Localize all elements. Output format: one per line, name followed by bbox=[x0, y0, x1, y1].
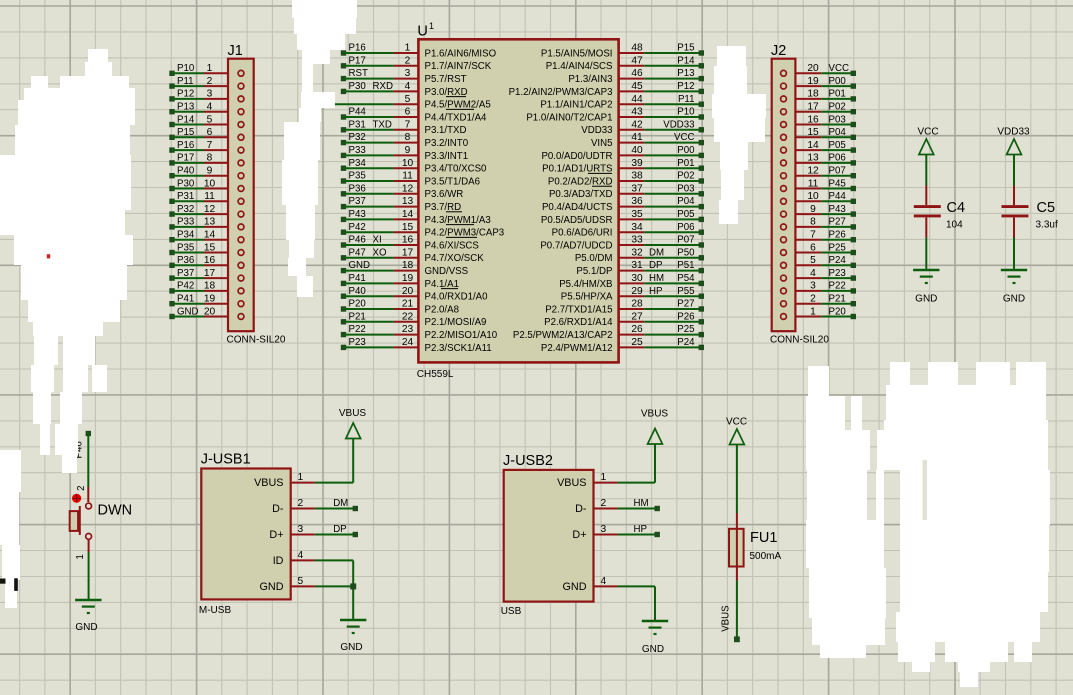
svg-text:P33: P33 bbox=[177, 217, 194, 228]
U1 pin 10 internal label bbox=[425, 164, 488, 175]
svg-text:P40: P40 bbox=[177, 166, 195, 177]
svg-text:P2.2/MISO1/A10: P2.2/MISO1/A10 bbox=[425, 330, 498, 341]
svg-text:P06: P06 bbox=[829, 153, 846, 164]
svg-text:10: 10 bbox=[807, 191, 819, 202]
J1 pin 13 wire (P33) bbox=[169, 217, 244, 230]
U1 pin 34 right wire (P06) bbox=[619, 222, 704, 235]
U1 pin 36 internal label bbox=[542, 202, 613, 213]
svg-text:16: 16 bbox=[402, 235, 414, 246]
U1 pin 30 internal label bbox=[559, 279, 612, 290]
svg-text:P04: P04 bbox=[677, 196, 695, 207]
svg-text:P11: P11 bbox=[177, 76, 194, 87]
J1 pin 11 wire (P31) bbox=[169, 191, 244, 204]
svg-text:FU1: FU1 bbox=[750, 530, 777, 546]
svg-text:15: 15 bbox=[204, 242, 216, 253]
svg-text:DP: DP bbox=[333, 524, 346, 535]
svg-text:P47: P47 bbox=[349, 247, 366, 258]
U1 pin 47 right wire (P14) bbox=[619, 55, 704, 68]
svg-text:4: 4 bbox=[207, 102, 213, 113]
svg-text:3: 3 bbox=[601, 524, 607, 535]
svg-text:1: 1 bbox=[429, 21, 434, 31]
J2 pin 17 wire (P02) bbox=[781, 102, 856, 115]
svg-text:D+: D+ bbox=[269, 529, 283, 541]
svg-text:15: 15 bbox=[402, 222, 414, 233]
svg-text:9: 9 bbox=[207, 166, 213, 177]
svg-text:19: 19 bbox=[807, 76, 819, 87]
J-USB1 pin 4 (ID) bbox=[273, 550, 315, 567]
U1 pin 42 internal label bbox=[581, 125, 612, 136]
svg-text:P32: P32 bbox=[349, 132, 366, 143]
J2 pin 15 wire (P04) bbox=[781, 127, 856, 140]
wire DWN pin 1 to ground bbox=[88, 552, 90, 599]
svg-text:P11: P11 bbox=[678, 94, 695, 105]
svg-text:P25: P25 bbox=[829, 242, 846, 253]
svg-text:P42: P42 bbox=[349, 222, 366, 233]
svg-text:GND: GND bbox=[177, 306, 199, 317]
U1 pin 13 internal label bbox=[425, 202, 463, 213]
svg-text:P02: P02 bbox=[829, 102, 846, 113]
svg-text:11: 11 bbox=[808, 178, 819, 189]
svg-text:27: 27 bbox=[631, 311, 643, 322]
svg-text:P12: P12 bbox=[677, 81, 694, 92]
svg-text:18: 18 bbox=[204, 281, 216, 292]
svg-text:P17: P17 bbox=[177, 153, 194, 164]
svg-text:P5.0/DM: P5.0/DM bbox=[575, 253, 613, 264]
J2 pin 11 wire (P45) bbox=[781, 178, 856, 191]
J2 pin 9 wire (P43) bbox=[781, 204, 856, 217]
U1 pin 7 internal label bbox=[425, 125, 467, 136]
white-out scribble middle streak (blob D) bbox=[302, 64, 313, 92]
svg-text:P31: P31 bbox=[349, 119, 366, 130]
U1 pin 25 internal label bbox=[541, 343, 613, 354]
J1 pin 10 wire (P30) bbox=[169, 178, 244, 191]
svg-text:3: 3 bbox=[810, 281, 816, 292]
U1 pin 37 internal label bbox=[549, 189, 613, 200]
connector J-USB2 (USB) body bbox=[501, 453, 594, 617]
U1 pin 42 right wire (VDD33) bbox=[619, 119, 704, 132]
J2 pin 8 wire (P27) bbox=[781, 217, 856, 230]
svg-text:20: 20 bbox=[204, 306, 216, 317]
svg-text:17: 17 bbox=[204, 268, 216, 279]
J1 pin 3 wire (P12) bbox=[169, 89, 244, 102]
J2 pin 6 wire (P25) bbox=[781, 242, 856, 255]
svg-text:5: 5 bbox=[405, 94, 411, 105]
svg-text:29: 29 bbox=[631, 286, 643, 297]
svg-text:16: 16 bbox=[204, 255, 216, 266]
J1 pin 8 wire (P17) bbox=[169, 153, 244, 166]
power flag VDD33 (above C5) bbox=[997, 127, 1030, 186]
ground symbol below J-USB2 bbox=[642, 621, 668, 655]
J1 pin 14 wire (P34) bbox=[169, 230, 244, 243]
svg-text:P12: P12 bbox=[177, 89, 194, 100]
svg-text:6: 6 bbox=[207, 127, 213, 138]
svg-text:P50: P50 bbox=[677, 247, 695, 258]
svg-text:30: 30 bbox=[631, 273, 643, 284]
svg-text:23: 23 bbox=[402, 324, 414, 335]
J-USB2 pin 1 (VBUS) bbox=[557, 472, 617, 489]
U1 pin 3 left wire (RST) bbox=[341, 68, 419, 81]
svg-text:19: 19 bbox=[204, 294, 216, 305]
power flag VBUS (above J-USB2) bbox=[641, 409, 669, 445]
U1 pin 40 right wire (P00) bbox=[619, 145, 704, 158]
wire + terminal DM bbox=[315, 498, 358, 511]
J1 pin 6 wire (P15) bbox=[169, 127, 244, 140]
J1 pin 17 wire (P37) bbox=[169, 268, 244, 281]
U1 pin 8 internal label bbox=[425, 138, 469, 149]
J2 pin 14 wire (P05) bbox=[781, 140, 856, 153]
U1 pin 24 left wire (P23) bbox=[341, 337, 419, 350]
svg-text:P46: P46 bbox=[349, 235, 366, 246]
U1 pin 27 right wire (P26) bbox=[619, 311, 704, 324]
svg-text:D-: D- bbox=[272, 503, 284, 515]
power flag VCC (above FU1) bbox=[726, 417, 747, 514]
svg-text:DWN: DWN bbox=[98, 503, 133, 519]
J2 pin 12 wire (P07) bbox=[781, 166, 856, 179]
J2 pin 5 wire (P24) bbox=[781, 255, 856, 268]
IC U1 CH559L body bbox=[417, 21, 619, 380]
U1 pin 19 internal label bbox=[425, 279, 459, 290]
svg-text:P35: P35 bbox=[177, 242, 194, 253]
svg-text:GND: GND bbox=[915, 294, 937, 305]
svg-text:P16: P16 bbox=[177, 140, 194, 151]
svg-text:P22: P22 bbox=[349, 324, 366, 335]
U1 pin 46 right wire (P13) bbox=[619, 68, 704, 81]
svg-text:P36: P36 bbox=[177, 255, 194, 266]
svg-text:42: 42 bbox=[631, 119, 643, 130]
svg-text:8: 8 bbox=[405, 132, 411, 143]
J1 pin 18 wire (P42) bbox=[169, 281, 244, 294]
svg-text:18: 18 bbox=[807, 89, 819, 100]
U1 pin 9 internal label bbox=[425, 151, 469, 162]
svg-text:P1.6/AIN6/MISO: P1.6/AIN6/MISO bbox=[425, 48, 497, 59]
svg-text:P13: P13 bbox=[677, 68, 694, 79]
svg-text:P45: P45 bbox=[829, 178, 846, 189]
svg-text:CH559L: CH559L bbox=[417, 369, 454, 380]
svg-text:GND: GND bbox=[642, 644, 664, 655]
svg-text:CONN-SIL20: CONN-SIL20 bbox=[770, 335, 829, 346]
svg-text:33: 33 bbox=[631, 235, 643, 246]
svg-text:36: 36 bbox=[631, 196, 643, 207]
ground symbol below J-USB1 bbox=[340, 620, 366, 653]
svg-text:34: 34 bbox=[631, 222, 643, 233]
U1 pin 4 left wire (P30) bbox=[341, 81, 419, 94]
svg-text:GND: GND bbox=[75, 622, 97, 633]
wire J-USB2 pin4 to ground bbox=[618, 586, 656, 620]
svg-text:GND: GND bbox=[349, 260, 371, 271]
svg-text:19: 19 bbox=[402, 273, 414, 284]
U1 pin 3 internal label bbox=[425, 74, 467, 85]
U1 pin 11 left wire (P35) bbox=[341, 171, 419, 184]
white-out scribble bottom-right (left stroke cluster) bbox=[808, 366, 829, 396]
U1 pin 17 internal label bbox=[425, 253, 485, 264]
J1 pin 20 wire (GND) bbox=[169, 306, 244, 319]
U1 pin 33 right wire (P07) bbox=[619, 235, 704, 248]
U1 pin 29 internal label bbox=[561, 292, 613, 303]
power flag VCC (above C4) bbox=[917, 127, 938, 186]
svg-text:10: 10 bbox=[402, 158, 414, 169]
svg-text:17: 17 bbox=[402, 247, 414, 258]
svg-text:P5.4/HM/XB: P5.4/HM/XB bbox=[559, 279, 612, 290]
svg-text:44: 44 bbox=[631, 94, 643, 105]
U1 pin 20 internal label bbox=[425, 292, 489, 303]
svg-text:P0.0/AD0/UDTR: P0.0/AD0/UDTR bbox=[541, 151, 612, 162]
svg-text:P2.5/PWM2/A13/CAP2: P2.5/PWM2/A13/CAP2 bbox=[513, 330, 613, 341]
svg-text:1: 1 bbox=[405, 43, 411, 54]
svg-text:P07: P07 bbox=[677, 235, 694, 246]
U1 pin 29 right wire (P55) bbox=[619, 286, 704, 299]
svg-text:P15: P15 bbox=[177, 127, 194, 138]
J-USB1 pin 2 (D-) bbox=[272, 498, 315, 515]
svg-text:P30: P30 bbox=[177, 178, 195, 189]
svg-text:35: 35 bbox=[631, 209, 643, 220]
svg-text:P37: P37 bbox=[349, 196, 366, 207]
svg-text:HP: HP bbox=[634, 524, 647, 535]
svg-text:P21: P21 bbox=[349, 311, 366, 322]
svg-text:P27: P27 bbox=[829, 217, 846, 228]
svg-text:TXD: TXD bbox=[373, 119, 392, 130]
svg-text:VCC: VCC bbox=[829, 63, 849, 74]
svg-text:P17: P17 bbox=[349, 55, 366, 66]
U1 pin 24 internal label bbox=[425, 343, 492, 354]
U1 pin 23 internal label bbox=[425, 330, 498, 341]
svg-text:P13: P13 bbox=[177, 102, 194, 113]
svg-text:VDD33: VDD33 bbox=[997, 127, 1030, 138]
J1 pin 5 wire (P14) bbox=[169, 114, 244, 127]
U1 pin 2 internal label bbox=[425, 61, 492, 72]
white-out scribble left edge streak bbox=[0, 450, 21, 492]
connector J1 CONN-SIL20 bbox=[227, 43, 286, 346]
svg-text:P5.1/DP: P5.1/DP bbox=[576, 266, 612, 277]
U1 pin 36 right wire (P04) bbox=[619, 196, 704, 209]
svg-text:2: 2 bbox=[810, 294, 816, 305]
U1 pin 33 internal label bbox=[540, 240, 612, 251]
svg-text:P02: P02 bbox=[677, 171, 694, 182]
svg-text:P2.0/A8: P2.0/A8 bbox=[425, 304, 459, 315]
U1 pin 47 internal label bbox=[546, 61, 613, 72]
U1 pin 30 right wire (P54) bbox=[619, 273, 704, 286]
svg-text:P54: P54 bbox=[677, 273, 695, 284]
J2 pin 16 wire (P03) bbox=[781, 114, 856, 127]
svg-text:1: 1 bbox=[75, 554, 86, 559]
U1 pin 7 left wire (P31) bbox=[341, 119, 419, 132]
U1 pin 48 right wire (P15) bbox=[619, 43, 704, 56]
J-USB2 pin 4 (GND) bbox=[563, 576, 618, 593]
svg-text:P3.6/WR: P3.6/WR bbox=[425, 189, 464, 200]
svg-text:5: 5 bbox=[207, 114, 213, 125]
U1 pin 44 internal label bbox=[540, 100, 612, 111]
J2 pin 18 wire (P01) bbox=[781, 89, 856, 102]
svg-text:5: 5 bbox=[298, 576, 304, 587]
svg-text:9: 9 bbox=[810, 204, 816, 215]
svg-text:25: 25 bbox=[631, 337, 643, 348]
svg-text:2: 2 bbox=[76, 486, 87, 491]
J2 pin 19 wire (P00) bbox=[781, 76, 856, 89]
svg-text:P36: P36 bbox=[349, 183, 366, 194]
J2 pin 20 wire (VCC) bbox=[781, 63, 856, 76]
U1 pin 5 internal label bbox=[425, 100, 491, 111]
svg-text:17: 17 bbox=[807, 102, 819, 113]
svg-text:GND: GND bbox=[260, 581, 284, 593]
svg-text:P34: P34 bbox=[349, 158, 367, 169]
U1 pin 13 left wire (P37) bbox=[341, 196, 419, 209]
svg-text:DM: DM bbox=[333, 498, 348, 509]
svg-text:VBUS: VBUS bbox=[641, 409, 669, 420]
svg-text:P3.5/T1/DA6: P3.5/T1/DA6 bbox=[425, 176, 480, 187]
U1 pin 32 internal label bbox=[575, 253, 613, 264]
svg-text:3.3uf: 3.3uf bbox=[1036, 220, 1058, 231]
U1 pin 18 left wire (GND) bbox=[341, 260, 419, 273]
U1 pin 34 internal label bbox=[552, 228, 613, 239]
svg-text:P15: P15 bbox=[677, 43, 694, 54]
U1 pin 31 right wire (P51) bbox=[619, 260, 704, 273]
svg-text:P2.3/SCK1/A11: P2.3/SCK1/A11 bbox=[425, 343, 492, 354]
svg-text:41: 41 bbox=[631, 132, 643, 143]
svg-text:24: 24 bbox=[402, 337, 414, 348]
svg-text:P2.1/MOSI/A9: P2.1/MOSI/A9 bbox=[425, 317, 487, 328]
svg-text:VBUS: VBUS bbox=[557, 477, 586, 489]
U1 pin 19 left wire (P41) bbox=[341, 273, 419, 286]
svg-text:P34: P34 bbox=[177, 230, 195, 241]
U1 pin 1 left wire (P16) bbox=[341, 43, 419, 56]
J-USB2 pin 2 (D-) bbox=[575, 498, 617, 515]
svg-text:J-USB2: J-USB2 bbox=[503, 453, 553, 469]
U1 pin 31 internal label bbox=[576, 266, 612, 277]
U1 pin 45 right wire (P12) bbox=[619, 81, 704, 94]
svg-text:9: 9 bbox=[405, 145, 411, 156]
svg-text:HM: HM bbox=[634, 498, 649, 509]
J2 pin 13 wire (P06) bbox=[781, 153, 856, 166]
svg-text:P44: P44 bbox=[349, 107, 367, 118]
svg-text:P00: P00 bbox=[677, 145, 695, 156]
svg-text:14: 14 bbox=[402, 209, 414, 220]
svg-text:15: 15 bbox=[807, 127, 819, 138]
svg-text:7: 7 bbox=[405, 119, 411, 130]
svg-text:46: 46 bbox=[631, 68, 643, 79]
svg-text:C4: C4 bbox=[947, 200, 966, 216]
U1 pin 20 left wire (P40) bbox=[341, 286, 419, 299]
svg-text:3: 3 bbox=[298, 524, 304, 535]
U1 pin 44 right wire (P11) bbox=[619, 94, 704, 107]
svg-text:XI: XI bbox=[373, 235, 382, 246]
svg-text:1: 1 bbox=[810, 306, 816, 317]
svg-text:P06: P06 bbox=[677, 222, 694, 233]
svg-text:P4.6/XI/SCS: P4.6/XI/SCS bbox=[425, 240, 480, 251]
svg-text:P14: P14 bbox=[177, 114, 195, 125]
U1 pin 25 right wire (P24) bbox=[619, 337, 704, 350]
svg-text:P0.5/AD5/UDSR: P0.5/AD5/UDSR bbox=[541, 215, 613, 226]
U1 pin 43 internal label bbox=[526, 112, 612, 123]
svg-text:13: 13 bbox=[807, 153, 819, 164]
svg-text:D-: D- bbox=[575, 503, 587, 515]
svg-text:P32: P32 bbox=[177, 204, 194, 215]
svg-text:P2.6/RXD1/A14: P2.6/RXD1/A14 bbox=[544, 317, 613, 328]
svg-text:P0.3/AD3/TXD: P0.3/AD3/TXD bbox=[549, 189, 613, 200]
erased component fragment (left edge) bbox=[0, 254, 50, 591]
connector J2 CONN-SIL20 bbox=[770, 43, 829, 346]
white-out scribble right of U1 (blob E) bbox=[717, 46, 746, 66]
svg-text:P30: P30 bbox=[349, 81, 367, 92]
svg-text:U: U bbox=[417, 24, 427, 40]
svg-text:P3.3/INT1: P3.3/INT1 bbox=[425, 151, 469, 162]
svg-text:P04: P04 bbox=[829, 127, 847, 138]
svg-text:GND: GND bbox=[340, 642, 362, 653]
svg-text:47: 47 bbox=[631, 55, 643, 66]
svg-text:6: 6 bbox=[810, 242, 816, 253]
svg-text:104: 104 bbox=[946, 220, 963, 231]
svg-text:P35: P35 bbox=[349, 171, 366, 182]
svg-text:P03: P03 bbox=[829, 114, 846, 125]
svg-text:VDD33: VDD33 bbox=[581, 125, 612, 136]
U1 pin 2 left wire (P17) bbox=[341, 55, 419, 68]
U1 pin 11 internal label bbox=[425, 176, 480, 187]
svg-text:XO: XO bbox=[373, 247, 387, 258]
svg-text:18: 18 bbox=[402, 260, 414, 271]
svg-text:P26: P26 bbox=[829, 230, 846, 241]
U1 pin 28 internal label bbox=[545, 304, 612, 315]
fuse FU1 500mA bbox=[729, 513, 782, 581]
svg-text:M-USB: M-USB bbox=[199, 605, 232, 616]
svg-text:VBUS: VBUS bbox=[339, 408, 367, 419]
svg-text:P3.4/T0/XCS0: P3.4/T0/XCS0 bbox=[425, 164, 488, 175]
svg-text:38: 38 bbox=[631, 171, 643, 182]
svg-text:8: 8 bbox=[810, 217, 816, 228]
svg-text:43: 43 bbox=[631, 107, 643, 118]
svg-text:P1.7/AIN7/SCK: P1.7/AIN7/SCK bbox=[425, 61, 492, 72]
svg-text:P42: P42 bbox=[177, 281, 194, 292]
svg-text:P1.5/AIN5/MOSI: P1.5/AIN5/MOSI bbox=[541, 48, 613, 59]
U1 pin 35 right wire (P05) bbox=[619, 209, 704, 222]
svg-text:P27: P27 bbox=[677, 299, 694, 310]
U1 pin 46 internal label bbox=[568, 74, 612, 85]
svg-text:P23: P23 bbox=[829, 268, 846, 279]
svg-text:P05: P05 bbox=[829, 140, 846, 151]
svg-text:14: 14 bbox=[807, 140, 819, 151]
svg-text:P31: P31 bbox=[177, 191, 194, 202]
svg-text:P44: P44 bbox=[829, 191, 847, 202]
svg-text:1: 1 bbox=[298, 472, 304, 483]
svg-text:1: 1 bbox=[207, 63, 213, 74]
svg-text:P24: P24 bbox=[829, 255, 847, 266]
svg-text:P21: P21 bbox=[829, 294, 846, 305]
svg-text:14: 14 bbox=[204, 230, 216, 241]
U1 pin 45 internal label bbox=[509, 87, 613, 98]
J2 pin 3 wire (P22) bbox=[781, 281, 856, 294]
svg-text:10: 10 bbox=[204, 178, 216, 189]
wire + terminal DP bbox=[315, 524, 358, 537]
svg-text:37: 37 bbox=[631, 183, 643, 194]
svg-text:P4.0/RXD1/A0: P4.0/RXD1/A0 bbox=[425, 292, 489, 303]
svg-text:P20: P20 bbox=[349, 299, 367, 310]
svg-text:VDD33: VDD33 bbox=[663, 119, 694, 130]
svg-text:USB: USB bbox=[501, 606, 522, 617]
U1 pin 22 left wire (P21) bbox=[341, 311, 419, 324]
U1 pin 10 left wire (P34) bbox=[341, 158, 419, 171]
U1 pin 22 internal label bbox=[425, 317, 487, 328]
U1 pin 5 left wire (n/c) bbox=[306, 94, 418, 105]
svg-text:CONN-SIL20: CONN-SIL20 bbox=[227, 335, 286, 346]
svg-text:DP: DP bbox=[649, 260, 662, 271]
svg-text:HM: HM bbox=[649, 273, 664, 284]
J-USB1 pin 3 (D+) bbox=[269, 524, 315, 541]
svg-text:P22: P22 bbox=[829, 281, 846, 292]
U1 pin 12 internal label bbox=[425, 189, 464, 200]
svg-text:48: 48 bbox=[631, 43, 643, 54]
J-USB1 pin 5 (GND) bbox=[260, 576, 315, 593]
svg-text:P1.3/AIN3: P1.3/AIN3 bbox=[568, 74, 612, 85]
svg-text:20: 20 bbox=[807, 63, 819, 74]
svg-text:4: 4 bbox=[405, 81, 411, 92]
J2 pin 2 wire (P21) bbox=[781, 294, 856, 307]
